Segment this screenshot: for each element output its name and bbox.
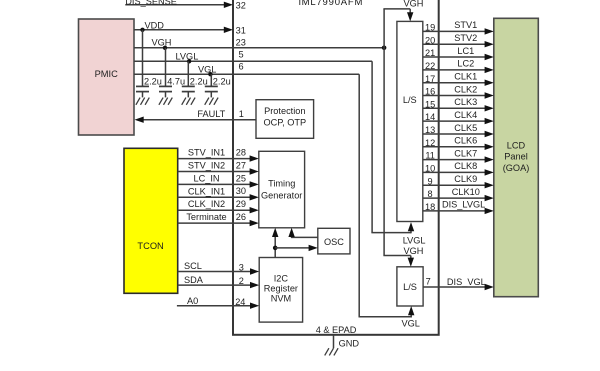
svg-text:13: 13	[425, 125, 435, 135]
svg-text:I2C: I2C	[274, 274, 289, 284]
wire VGL	[134, 65, 359, 75]
svg-text:STV_IN2: STV_IN2	[188, 161, 225, 171]
svg-text:2.2u: 2.2u	[190, 77, 208, 87]
wire GND stub	[333, 335, 335, 348]
svg-text:16: 16	[425, 87, 435, 97]
svg-text:5: 5	[239, 50, 244, 60]
svg-text:LC2: LC2	[457, 59, 474, 69]
svg-text:1: 1	[239, 109, 244, 119]
svg-text:CLK4: CLK4	[454, 110, 477, 120]
TCON block	[124, 148, 178, 293]
svg-text:TCON: TCON	[137, 241, 163, 251]
capacitor C2	[159, 48, 172, 98]
svg-text:19: 19	[425, 23, 435, 33]
svg-text:CLK5: CLK5	[454, 123, 477, 133]
svg-text:Panel: Panel	[504, 151, 528, 161]
wire DIS_SENSE	[125, 0, 233, 8]
capacitor C1	[136, 30, 149, 98]
svg-text:CLK1: CLK1	[454, 72, 477, 82]
wire OSC output to Timing Generator	[288, 228, 317, 238]
wire VDD	[134, 21, 233, 33]
wire VGH	[134, 37, 384, 47]
level shifter U1b	[397, 267, 423, 306]
svg-text:iML7990AFM: iML7990AFM	[299, 0, 364, 8]
wire STV2	[423, 33, 494, 47]
svg-text:NVM: NVM	[271, 294, 291, 304]
svg-text:11: 11	[425, 151, 435, 161]
svg-text:SDA: SDA	[184, 275, 204, 285]
wire CLK_IN1	[178, 186, 259, 200]
svg-text:DIS_SENSE: DIS_SENSE	[125, 0, 177, 7]
svg-text:Terminate: Terminate	[186, 212, 226, 222]
PMIC block	[79, 19, 135, 135]
wire LC_IN	[178, 173, 259, 187]
svg-text:STV1: STV1	[454, 20, 477, 30]
wire LC1	[423, 46, 494, 60]
svg-text:7: 7	[426, 277, 431, 287]
LCD panel (GOA) block	[494, 18, 539, 296]
wire CLK10	[423, 187, 494, 201]
wire VGH to L/S U1b	[383, 48, 414, 267]
svg-text:VGL: VGL	[198, 65, 216, 75]
svg-text:CLK9: CLK9	[454, 174, 477, 184]
svg-text:LC_IN: LC_IN	[193, 173, 219, 183]
wire STV1	[423, 20, 494, 34]
svg-text:4 & EPAD: 4 & EPAD	[316, 325, 357, 335]
junction VGH decoupling	[163, 46, 167, 50]
ground GND	[325, 348, 338, 355]
svg-text:CLK3: CLK3	[454, 97, 477, 107]
svg-text:CLK8: CLK8	[454, 161, 477, 171]
svg-text:23: 23	[236, 37, 246, 47]
svg-text:DIS_LVGL: DIS_LVGL	[442, 200, 485, 210]
svg-text:SCL: SCL	[184, 261, 202, 271]
svg-text:9: 9	[428, 176, 433, 186]
wire LVGL	[134, 52, 372, 62]
wire CLK4	[423, 110, 494, 124]
wire VGL to L/S U1b	[359, 74, 415, 317]
svg-text:Timing: Timing	[268, 179, 295, 189]
wire Terminate	[178, 212, 259, 226]
svg-text:Generator: Generator	[261, 190, 302, 200]
wire VGH to L/S U1a	[383, 9, 413, 48]
svg-text:CLK7: CLK7	[454, 148, 477, 158]
wire SDA	[178, 275, 260, 289]
svg-text:LC1: LC1	[457, 46, 474, 56]
OSC block	[318, 228, 350, 254]
svg-text:3: 3	[239, 262, 244, 272]
svg-text:6: 6	[239, 62, 244, 72]
svg-text:10: 10	[425, 164, 435, 174]
svg-text:14: 14	[425, 112, 435, 122]
svg-text:OCP, OTP: OCP, OTP	[263, 117, 306, 127]
svg-text:15: 15	[425, 99, 435, 109]
svg-text:CLK10: CLK10	[452, 187, 480, 197]
wire LVGL to L/S U1a	[371, 61, 414, 233]
svg-text:VDD: VDD	[145, 21, 165, 31]
junction VGL decoupling	[208, 72, 212, 76]
svg-text:STV_IN1: STV_IN1	[188, 148, 225, 158]
IC U1 outline	[233, 0, 439, 335]
junction VDD	[140, 28, 144, 32]
ground C2	[159, 98, 172, 105]
svg-text:CLK2: CLK2	[454, 84, 477, 94]
svg-text:DIS_VGL: DIS_VGL	[447, 277, 486, 287]
svg-text:CLK_IN1: CLK_IN1	[188, 186, 225, 196]
wire LC2	[423, 59, 494, 73]
wire CLK6	[423, 136, 494, 150]
svg-text:29: 29	[236, 199, 246, 209]
svg-text:PMIC: PMIC	[95, 69, 119, 79]
Protection block	[256, 100, 314, 139]
wire DIS_VGL	[423, 277, 494, 290]
svg-text:20: 20	[425, 35, 435, 45]
svg-text:STV2: STV2	[454, 33, 477, 43]
wire FAULT	[135, 109, 257, 123]
wire CLK3	[423, 97, 494, 111]
ground C1	[136, 98, 149, 105]
capacitor C4	[205, 74, 218, 97]
wire CLK8	[423, 161, 494, 175]
wire OSC input	[275, 245, 318, 251]
svg-text:OSC: OSC	[324, 237, 344, 247]
junction LVGL decoupling	[187, 59, 191, 63]
svg-text:LVGL: LVGL	[403, 236, 426, 246]
junction OSC branch	[273, 246, 278, 251]
I2C Register NVM block	[259, 258, 302, 323]
junction VGH branch	[382, 46, 387, 51]
svg-text:A0: A0	[187, 296, 198, 306]
svg-text:27: 27	[236, 160, 246, 170]
svg-text:VGH: VGH	[404, 246, 424, 256]
wire STV_IN1	[178, 148, 259, 162]
svg-text:Protection: Protection	[264, 106, 305, 116]
Timing Generator block	[259, 151, 305, 228]
svg-text:2: 2	[239, 276, 244, 286]
svg-text:CLK6: CLK6	[454, 136, 477, 146]
svg-text:17: 17	[425, 74, 435, 84]
level shifter U1a	[397, 21, 423, 221]
svg-text:L/S: L/S	[403, 95, 417, 105]
wire STV_IN2	[178, 161, 259, 175]
svg-text:31: 31	[236, 25, 246, 35]
svg-text:24: 24	[235, 297, 245, 307]
svg-text:Register: Register	[264, 284, 298, 294]
svg-text:VGL: VGL	[402, 319, 420, 329]
wire A0	[177, 296, 259, 309]
wire CLK_IN2	[178, 199, 259, 213]
svg-text:32: 32	[236, 1, 246, 11]
svg-text:L/S: L/S	[403, 282, 417, 292]
ground C3	[182, 98, 195, 105]
svg-text:2.2u: 2.2u	[144, 77, 162, 87]
capacitor C3	[182, 61, 195, 97]
svg-text:2.2u: 2.2u	[213, 77, 231, 87]
svg-text:4.7u: 4.7u	[167, 77, 185, 87]
ground C4	[205, 98, 218, 105]
svg-text:18: 18	[425, 202, 435, 212]
wire SCL	[178, 261, 260, 275]
svg-text:(GOA): (GOA)	[503, 163, 530, 173]
svg-text:GND: GND	[339, 339, 360, 349]
svg-text:28: 28	[236, 148, 246, 158]
wire DIS_LVGL	[423, 200, 494, 214]
wire CLK7	[423, 148, 494, 162]
wire CLK1	[423, 72, 494, 86]
svg-text:25: 25	[236, 173, 246, 183]
wire CLK9	[423, 174, 494, 188]
svg-text:VGH: VGH	[152, 37, 172, 47]
svg-text:12: 12	[425, 138, 435, 148]
svg-text:LCD: LCD	[507, 141, 526, 151]
svg-text:CLK_IN2: CLK_IN2	[188, 199, 225, 209]
svg-text:22: 22	[425, 61, 435, 71]
svg-text:26: 26	[236, 212, 246, 222]
wire CLK2	[423, 84, 494, 98]
svg-text:VGH: VGH	[404, 0, 424, 8]
svg-text:8: 8	[428, 189, 433, 199]
svg-text:21: 21	[425, 48, 435, 58]
svg-text:LVGL: LVGL	[176, 52, 199, 62]
svg-text:30: 30	[236, 186, 246, 196]
wire CLK5	[423, 123, 494, 137]
wire I2C to Timing Generator	[272, 228, 278, 258]
svg-text:FAULT: FAULT	[197, 109, 225, 119]
